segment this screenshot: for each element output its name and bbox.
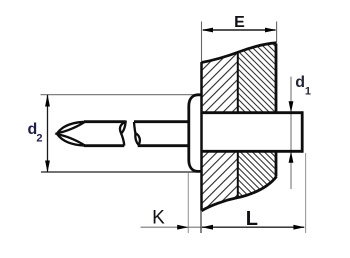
svg-text:K: K [152, 208, 165, 229]
svg-text:E: E [234, 14, 245, 31]
svg-text:L: L [246, 208, 258, 230]
svg-text:d: d [295, 74, 305, 91]
svg-text:2: 2 [36, 133, 42, 145]
svg-text:1: 1 [305, 85, 311, 97]
